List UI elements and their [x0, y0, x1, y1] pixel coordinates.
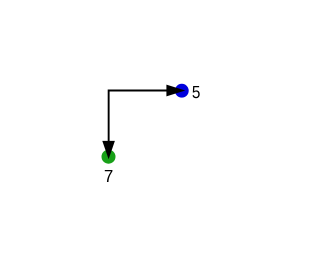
arrowhead into node 7 — [102, 141, 115, 159]
wire: L-shaped edge from node 7 up and right toward node 5 — [109, 91, 167, 143]
arrowhead into node 5 — [166, 85, 185, 97]
node 5 — [175, 84, 189, 98]
label 7 — [105, 170, 113, 182]
node 7 — [102, 150, 116, 164]
label 5 — [193, 86, 200, 98]
